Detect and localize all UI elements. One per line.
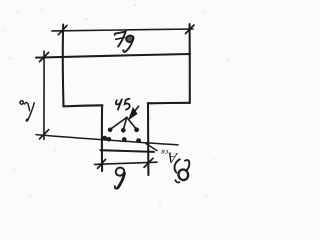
flange bottom right edge <box>148 102 190 105</box>
label b) open paren <box>175 159 180 172</box>
lower extension leader line through dots <box>36 135 178 145</box>
web right edge <box>147 103 149 175</box>
label 45 <box>116 99 130 110</box>
bevel line left <box>110 117 127 129</box>
top dimension line 79 <box>52 29 193 31</box>
left label ho <box>20 101 34 121</box>
web bottom edge <box>101 150 155 152</box>
left dimension line h <box>43 51 45 140</box>
weld dot lower middle <box>122 137 127 142</box>
label 79 : digit 9 <box>123 35 134 52</box>
label Asv (upside down) <box>160 148 179 166</box>
45 leader arrowhead <box>128 107 138 121</box>
bottom dim tick left <box>98 159 106 168</box>
weld dot lower right <box>136 138 141 143</box>
label b) loop glyph <box>177 160 189 181</box>
45 leader tail <box>135 106 138 110</box>
label 9 (dimension value) <box>115 166 126 188</box>
weld dot upper middle <box>121 128 126 133</box>
weld dot upper right <box>134 127 139 132</box>
weld dot upper left <box>108 128 113 133</box>
weld dot lower far-left <box>102 136 107 141</box>
flange bottom left edge <box>63 105 102 106</box>
left dim tick bottom <box>40 130 49 139</box>
flange right edge <box>189 24 191 103</box>
bottom dim tick right <box>144 158 153 167</box>
second leader stroke <box>146 144 157 151</box>
bevel line right <box>127 117 137 129</box>
weld dot lower left <box>107 137 112 142</box>
label 79 : digit 7 <box>115 32 126 47</box>
bevel line middle <box>123 117 127 129</box>
label b) flick <box>175 180 179 182</box>
flange top edge <box>36 54 190 58</box>
bottom dimension line 8 <box>95 162 158 164</box>
left dim tick top <box>40 52 49 61</box>
web left edge <box>101 105 103 171</box>
top dim tick left <box>59 25 68 34</box>
flange left edge <box>62 25 65 107</box>
top dim tick right <box>186 25 195 34</box>
